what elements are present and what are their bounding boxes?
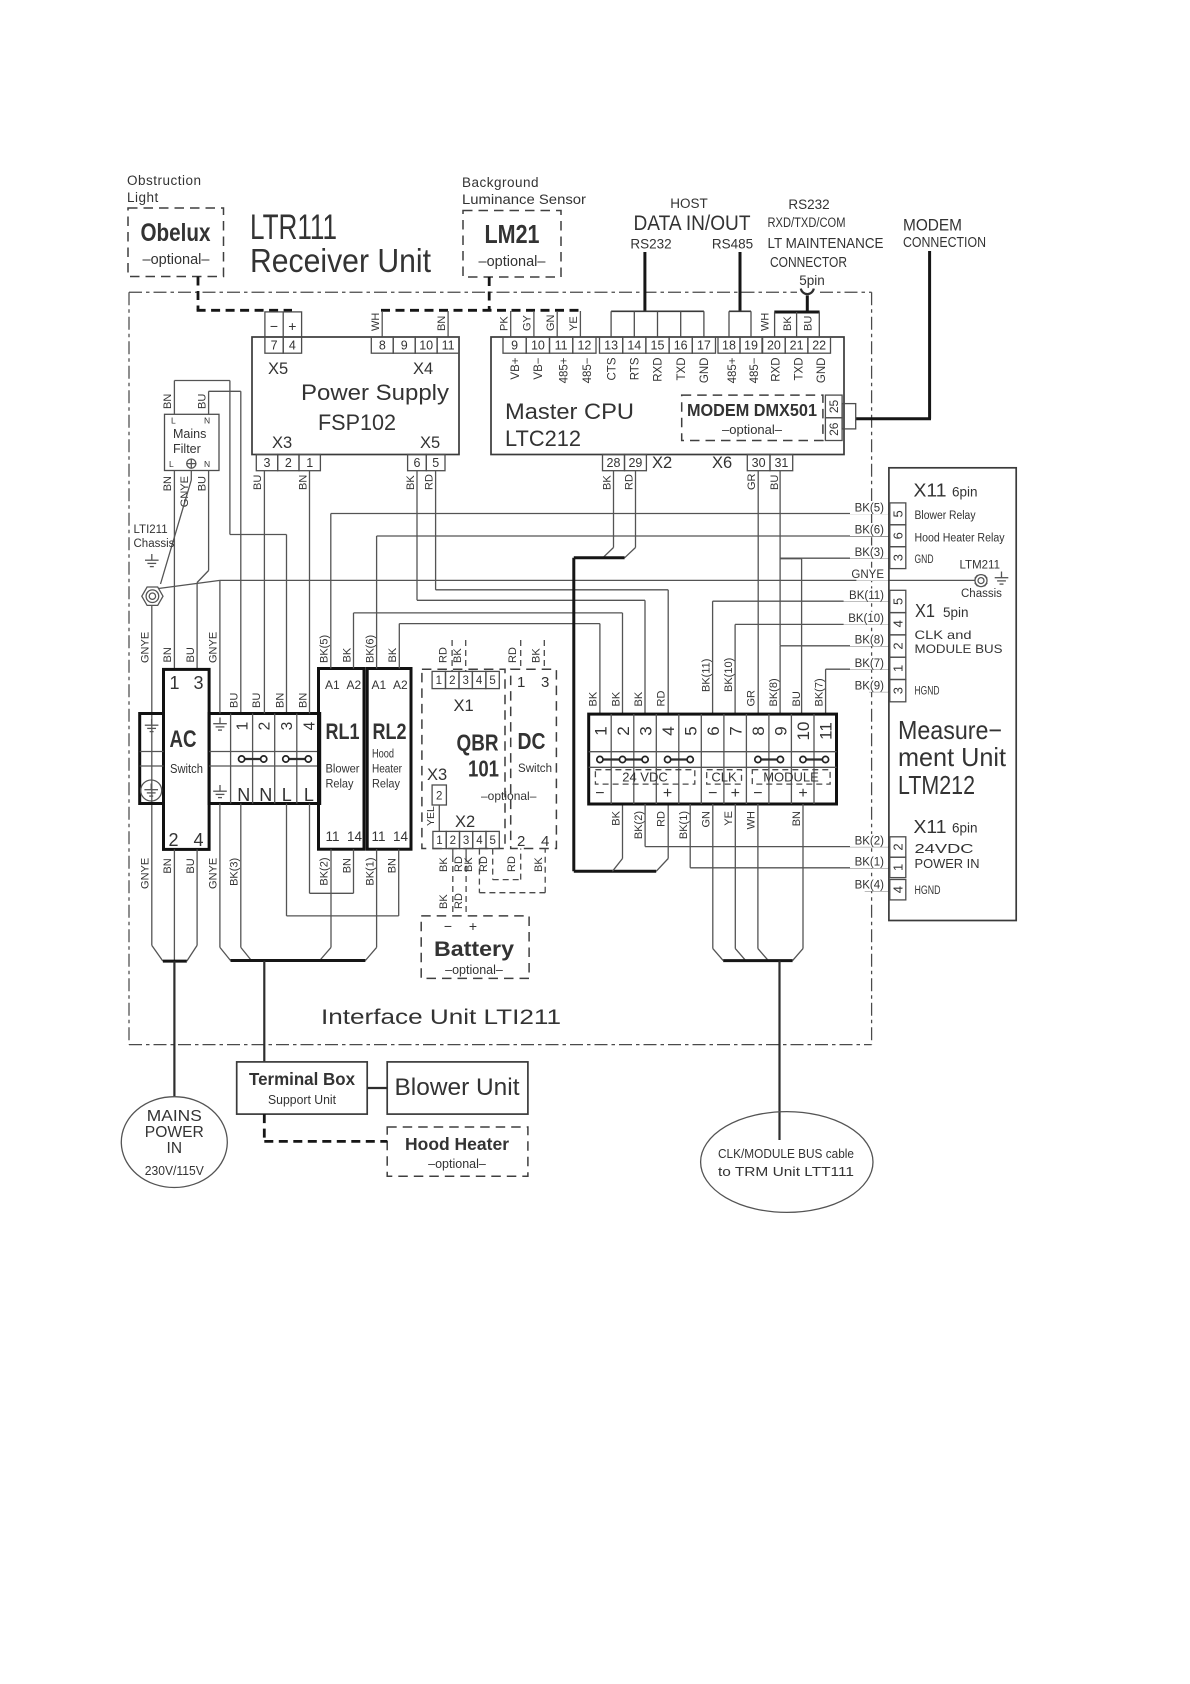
- chassis nut: [142, 587, 163, 605]
- svg-text:26: 26: [827, 422, 841, 436]
- svg-text:BU: BU: [803, 316, 815, 331]
- svg-text:Background: Background: [462, 175, 539, 190]
- wire label BK(2): [850, 834, 888, 847]
- svg-text:4: 4: [541, 833, 549, 850]
- measurement unit LTM212 box: [889, 468, 1016, 921]
- svg-text:AC: AC: [170, 726, 197, 753]
- svg-text:BU: BU: [229, 693, 241, 708]
- svg-text:BK: BK: [341, 647, 353, 662]
- svg-text:BK: BK: [438, 857, 450, 872]
- svg-text:X11: X11: [914, 817, 947, 837]
- svg-text:BK: BK: [438, 894, 450, 909]
- svg-text:19: 19: [744, 339, 758, 353]
- connector X5 -/+ cells: [265, 312, 302, 337]
- wire GN block cell6 down: [712, 804, 714, 949]
- svg-text:to TRM Unit LTT111: to TRM Unit LTT111: [718, 1165, 854, 1179]
- svg-text:1: 1: [891, 864, 906, 871]
- wire BK(8) LTM212 to block cell9: [780, 645, 889, 647]
- power supply FSP102 box: [252, 337, 459, 455]
- svg-text:1: 1: [436, 835, 442, 847]
- wire obelux dashed drop: [197, 277, 200, 311]
- svg-text:BN: BN: [274, 693, 286, 708]
- svg-text:BK(2): BK(2): [633, 811, 645, 839]
- svg-text:BN: BN: [162, 858, 174, 873]
- svg-text:2: 2: [517, 833, 525, 850]
- svg-text:YEL: YEL: [425, 806, 437, 826]
- svg-text:485+: 485+: [727, 357, 739, 383]
- svg-text:CLK/MODULE BUS cable: CLK/MODULE BUS cable: [718, 1147, 854, 1161]
- cable collar to mains: [152, 945, 163, 961]
- svg-text:Filter: Filter: [173, 442, 201, 456]
- svg-text:−: −: [708, 785, 717, 802]
- svg-text:11: 11: [326, 829, 340, 844]
- svg-text:2: 2: [450, 835, 456, 847]
- wire BK(11) block cell6 to LTM212: [713, 600, 889, 602]
- wire label BK(3): [850, 546, 888, 559]
- svg-text:RD: RD: [438, 647, 450, 663]
- wire BK(5) RL1-A1 to LTM212 pin5: [331, 513, 889, 515]
- terminal box support unit: [237, 1062, 368, 1114]
- connector X3 pins 3,2,1: [256, 455, 277, 471]
- svg-text:Mains: Mains: [173, 427, 206, 441]
- wire WH block cell8 down: [757, 804, 759, 949]
- svg-text:Hood: Hood: [372, 747, 394, 761]
- cable collar to TRM: [713, 949, 723, 961]
- svg-text:BN: BN: [162, 647, 174, 662]
- wire RD dashed stub into DC1: [520, 640, 522, 669]
- svg-text:Master CPU: Master CPU: [505, 399, 634, 424]
- connector pins 25,26: [825, 395, 842, 418]
- wire heavy 24VDC bus from CPU: [574, 556, 625, 559]
- connector X4 pins 8-11: [371, 337, 393, 353]
- wire GN stub to CPU pin11: [556, 311, 558, 337]
- svg-text:RL1: RL1: [326, 719, 360, 744]
- svg-text:LTC212: LTC212: [505, 426, 581, 451]
- svg-text:4: 4: [891, 620, 906, 627]
- svg-text:Switch: Switch: [518, 761, 552, 775]
- svg-text:1: 1: [592, 726, 611, 735]
- svg-text:HOST: HOST: [670, 196, 708, 211]
- wire BN strip cell3 + RL2-14: [286, 804, 288, 916]
- wire BU jog filter to strip cell1: [209, 390, 241, 392]
- wire GNYE bus to measurement unit: [220, 579, 975, 581]
- svg-text:X3: X3: [427, 766, 447, 784]
- svg-text:1: 1: [891, 665, 906, 672]
- svg-text:RXD/TXD/COM: RXD/TXD/COM: [768, 215, 846, 230]
- svg-text:5pin: 5pin: [943, 605, 969, 620]
- svg-text:11: 11: [442, 339, 455, 353]
- wire BU X3 pin3 to strip cell2: [263, 471, 265, 714]
- svg-text:LTM211: LTM211: [960, 560, 1000, 572]
- svg-text:Chassis: Chassis: [961, 588, 1002, 600]
- svg-text:BU: BU: [196, 394, 208, 409]
- svg-text:BK: BK: [610, 810, 622, 825]
- svg-text:IN: IN: [167, 1140, 183, 1157]
- svg-text:GND: GND: [816, 358, 828, 384]
- svg-text:BK(1): BK(1): [678, 811, 690, 839]
- svg-text:BK: BK: [463, 857, 475, 872]
- svg-text:3: 3: [541, 674, 549, 691]
- svg-text:BN: BN: [791, 811, 803, 826]
- svg-text:230V/115V: 230V/115V: [145, 1163, 204, 1178]
- wire BN filter top: [173, 381, 175, 415]
- svg-text:6pin: 6pin: [952, 485, 978, 500]
- svg-text:BU: BU: [185, 647, 197, 662]
- wire BU filter to AC pin3: [208, 471, 210, 571]
- wire YE block cell7 down: [734, 804, 736, 949]
- svg-text:POWER: POWER: [145, 1124, 204, 1141]
- svg-text:BK(5): BK(5): [855, 503, 885, 515]
- terminal block 24VDC/CLK/MODULE: [589, 714, 837, 804]
- svg-text:X11: X11: [914, 481, 947, 501]
- svg-text:YE: YE: [723, 811, 735, 826]
- svg-text:21: 21: [790, 339, 804, 353]
- svg-text:+: +: [731, 785, 740, 802]
- svg-text:Blower: Blower: [326, 762, 360, 776]
- svg-text:22: 22: [812, 339, 826, 353]
- svg-text:LTM212: LTM212: [898, 770, 975, 800]
- svg-text:ment Unit: ment Unit: [898, 742, 1007, 772]
- svg-text:BK(5): BK(5): [319, 635, 331, 663]
- svg-text:X1: X1: [915, 601, 935, 621]
- wire BK(6) RL2-A1 to LTM212 pin6: [377, 535, 889, 537]
- svg-text:RD: RD: [623, 474, 635, 490]
- svg-text:RD: RD: [453, 893, 465, 909]
- block jumper 4-5: [668, 758, 691, 760]
- svg-text:CLK: CLK: [711, 770, 737, 785]
- block jumper 1-2-3: [600, 758, 645, 760]
- svg-text:TXD: TXD: [793, 358, 805, 381]
- svg-text:+: +: [798, 785, 807, 802]
- svg-text:RD: RD: [507, 647, 519, 663]
- svg-text:Switch: Switch: [170, 761, 203, 776]
- svg-text:VB+: VB+: [510, 357, 522, 379]
- wire BU CPU pin31 down: [779, 471, 781, 646]
- svg-text:GNYE: GNYE: [851, 569, 884, 581]
- wire BK(2) block cell3 to LTM212: [644, 804, 646, 847]
- svg-text:A2: A2: [347, 678, 362, 692]
- svg-text:BN: BN: [436, 316, 448, 331]
- svg-text:Hood Heater: Hood Heater: [405, 1134, 509, 1154]
- svg-text:DATA IN/OUT: DATA IN/OUT: [634, 212, 751, 235]
- svg-text:11: 11: [372, 829, 386, 844]
- svg-text:–optional–: –optional–: [479, 254, 547, 270]
- svg-text:BK: BK: [452, 648, 464, 663]
- svg-text:4: 4: [194, 830, 204, 850]
- svg-text:17: 17: [697, 339, 711, 353]
- svg-text:3: 3: [194, 673, 204, 693]
- svg-text:LT MAINTENANCE: LT MAINTENANCE: [768, 236, 884, 252]
- svg-text:–optional–: –optional–: [722, 422, 783, 437]
- svg-text:10: 10: [531, 339, 545, 353]
- svg-text:3: 3: [637, 726, 656, 735]
- svg-text:WH: WH: [746, 811, 758, 829]
- svg-text:−: −: [270, 318, 278, 334]
- svg-text:HGND: HGND: [915, 686, 940, 698]
- wire PK stub to CPU pin9: [510, 311, 512, 337]
- svg-text:24 VDC: 24 VDC: [622, 770, 668, 785]
- svg-text:4: 4: [476, 835, 483, 847]
- block jumper 10-11: [803, 758, 826, 760]
- wire BK dashed stub into X1: [465, 640, 467, 671]
- ground symbol chassis: [145, 554, 159, 567]
- svg-text:25: 25: [827, 400, 841, 414]
- svg-text:Hood Heater Relay: Hood Heater Relay: [915, 533, 1005, 545]
- svg-text:LM21: LM21: [485, 219, 540, 249]
- svg-text:X2: X2: [455, 813, 475, 831]
- svg-text:3: 3: [463, 835, 469, 847]
- svg-text:16: 16: [674, 339, 688, 353]
- svg-text:BK(2): BK(2): [855, 835, 885, 847]
- wire BK RL2-A2 to block cell1: [399, 623, 600, 625]
- obstruction light Obelux (optional): [128, 208, 224, 277]
- wire RD X2 pin5 to DC2: [492, 849, 494, 880]
- wire BN stub to X4 pin11: [447, 311, 449, 337]
- wire GNYE branch to strip ground: [219, 580, 221, 713]
- svg-text:YE: YE: [568, 316, 580, 331]
- connector X5 bottom pins 6,5: [408, 455, 427, 471]
- svg-text:2: 2: [449, 675, 455, 687]
- svg-text:BK: BK: [531, 648, 543, 663]
- master CPU LTC212 box: [491, 337, 844, 455]
- svg-text:6: 6: [891, 532, 906, 539]
- strip ground symbols: [213, 718, 227, 731]
- wire BK(3) strip cell1 down: [240, 804, 242, 948]
- connector comb over CPU pins 13-17: [611, 310, 704, 312]
- svg-text:BK: BK: [588, 691, 600, 706]
- interface unit LTI211 dash-dot border: [129, 291, 797, 293]
- svg-text:BU: BU: [196, 476, 208, 491]
- svg-text:GR: GR: [746, 473, 758, 490]
- svg-text:5: 5: [489, 675, 495, 687]
- wire YEL X3 to X2 pin1: [438, 805, 440, 831]
- wire BK(3) LTM212 GND: [780, 557, 889, 559]
- svg-text:30: 30: [752, 456, 766, 470]
- wire label BK(8): [850, 633, 888, 646]
- svg-text:BN: BN: [341, 858, 353, 873]
- svg-text:RD: RD: [506, 856, 518, 872]
- svg-text:1: 1: [306, 456, 313, 470]
- svg-text:RD: RD: [655, 811, 667, 827]
- svg-text:X2: X2: [652, 454, 672, 472]
- svg-text:Support Unit: Support Unit: [268, 1092, 336, 1107]
- svg-text:GN: GN: [701, 811, 713, 828]
- svg-text:MODEM: MODEM: [903, 216, 962, 235]
- connector X3 pin 2: [432, 785, 446, 805]
- wire RS232 host drop: [643, 252, 646, 311]
- svg-text:GND: GND: [699, 358, 711, 384]
- svg-text:BU: BU: [791, 691, 803, 706]
- wire GY stub to CPU pin10: [533, 311, 535, 337]
- wire BK dashed stub into DC3: [543, 640, 545, 669]
- svg-text:N: N: [204, 416, 210, 426]
- wire BK block cell2 bottom to bus: [622, 804, 624, 859]
- svg-text:BU: BU: [769, 475, 781, 490]
- svg-text:BK(8): BK(8): [768, 678, 780, 706]
- svg-text:RD: RD: [423, 474, 435, 490]
- svg-text:10: 10: [794, 722, 813, 741]
- svg-text:Terminal Box: Terminal Box: [249, 1069, 355, 1089]
- background luminance sensor LM21 (optional): [463, 211, 561, 278]
- svg-text:GNYE: GNYE: [208, 858, 220, 889]
- wire RD PSU X5-5 to block cell4: [435, 471, 437, 590]
- wire TRM cable: [778, 961, 780, 1140]
- svg-text:11: 11: [555, 339, 568, 353]
- svg-text:3: 3: [264, 456, 271, 470]
- svg-text:8: 8: [749, 726, 768, 735]
- wire BK(1) RL2-11 into cable: [376, 849, 378, 947]
- svg-text:5: 5: [432, 456, 439, 470]
- strip jumper link 1-2: [242, 758, 264, 760]
- wire label BK(7): [850, 657, 888, 670]
- svg-text:A2: A2: [393, 678, 408, 692]
- wire MODEM connection heavy line: [928, 251, 931, 419]
- svg-text:CLK and: CLK and: [915, 628, 972, 642]
- svg-text:5pin: 5pin: [799, 273, 825, 288]
- svg-text:3: 3: [279, 722, 296, 731]
- relay RL2 box: [367, 669, 411, 850]
- wire label BK(11): [844, 589, 888, 602]
- svg-text:BK(7): BK(7): [855, 658, 885, 670]
- svg-text:BK(7): BK(7): [813, 678, 825, 706]
- svg-text:L: L: [282, 785, 292, 805]
- connector X6 pins 30,31: [747, 455, 770, 471]
- wire terminal box cable: [263, 961, 265, 1062]
- svg-text:BK: BK: [387, 647, 399, 662]
- svg-text:A1: A1: [372, 678, 387, 692]
- block jumper 8-9: [758, 758, 781, 760]
- svg-text:1: 1: [170, 673, 180, 693]
- svg-text:Luminance Sensor: Luminance Sensor: [462, 192, 587, 207]
- label MODULE: [752, 770, 830, 784]
- hood heater (optional): [387, 1127, 528, 1176]
- mains filter box: [165, 414, 220, 470]
- cable collar to terminal box: [220, 947, 231, 960]
- svg-text:BK(4): BK(4): [855, 880, 885, 892]
- DC switch dashed box (optional): [511, 669, 557, 848]
- svg-text:X4: X4: [413, 360, 433, 378]
- svg-text:RS485: RS485: [712, 237, 753, 252]
- connector X1 pins 5,4,2,1,3: [890, 590, 906, 612]
- svg-text:CONNECTOR: CONNECTOR: [770, 255, 847, 271]
- wire GNYE filter to chassis nut: [190, 471, 192, 481]
- QBR101 dashed box (optional): [422, 669, 505, 848]
- wire BK PSU X5-6 to block cell3: [416, 471, 418, 601]
- svg-text:101: 101: [468, 756, 499, 782]
- wire BK X2 pin4 to DC4: [478, 849, 480, 893]
- svg-text:RD: RD: [655, 691, 667, 707]
- svg-text:Obelux: Obelux: [141, 219, 211, 247]
- wire RS485 drop: [739, 252, 742, 311]
- svg-text:4: 4: [301, 721, 318, 730]
- svg-text:RS232: RS232: [788, 197, 829, 212]
- wire BN filter to AC pin1: [173, 471, 175, 670]
- wire BK(2) RL1-11 into cable: [330, 849, 332, 947]
- svg-text:BK(3): BK(3): [855, 547, 885, 559]
- svg-text:−: −: [753, 785, 762, 802]
- svg-text:BU: BU: [185, 858, 197, 873]
- wire BN X3 pin1 to strip cell4: [309, 471, 311, 714]
- wire terminal box to blower: [367, 1087, 387, 1089]
- svg-text:2: 2: [436, 791, 442, 803]
- svg-text:2: 2: [891, 843, 906, 850]
- svg-text:RL2: RL2: [373, 719, 407, 744]
- svg-text:BN: BN: [297, 693, 309, 708]
- svg-text:BK(10): BK(10): [723, 658, 735, 692]
- svg-text:9: 9: [511, 339, 518, 353]
- svg-text:WH: WH: [760, 313, 772, 331]
- svg-text:GND: GND: [915, 554, 934, 566]
- wire label BK(10): [844, 612, 888, 625]
- connector X2 pins 1-5: [433, 831, 446, 848]
- battery box (optional): [421, 916, 529, 979]
- svg-text:7: 7: [271, 339, 278, 353]
- svg-text:+: +: [663, 785, 672, 802]
- 5pin connector cup symbol: [801, 289, 814, 294]
- svg-text:BU: BU: [252, 475, 264, 490]
- svg-text:BK: BK: [601, 475, 613, 490]
- svg-text:RXD: RXD: [771, 358, 783, 382]
- svg-text:N: N: [237, 785, 250, 805]
- wire BK(1) block cell5 to LTM212: [689, 804, 691, 868]
- svg-text:Measure−: Measure−: [898, 715, 1002, 745]
- wire BK CPU pin28 merge: [613, 471, 615, 548]
- svg-text:5: 5: [891, 510, 906, 517]
- svg-text:X3: X3: [272, 434, 292, 452]
- svg-text:X5: X5: [268, 360, 288, 378]
- svg-text:MAINS: MAINS: [147, 1108, 202, 1125]
- svg-text:GNYE: GNYE: [140, 858, 152, 889]
- svg-text:2: 2: [614, 726, 633, 735]
- svg-text:4: 4: [476, 675, 483, 687]
- connector X11 pins 2,1,4: [890, 837, 906, 857]
- modem DMX501 (optional): [682, 395, 823, 440]
- svg-text:485−: 485−: [582, 357, 594, 383]
- wire BN jog filter to strip cell3: [174, 380, 230, 382]
- wire 5pin drop: [806, 295, 809, 311]
- svg-text:TXD: TXD: [676, 358, 688, 381]
- svg-text:BN: BN: [387, 858, 399, 873]
- svg-text:+: +: [288, 318, 296, 334]
- svg-text:RS232: RS232: [630, 237, 671, 252]
- svg-text:BK(8): BK(8): [855, 635, 885, 647]
- svg-text:BN: BN: [162, 476, 174, 491]
- svg-text:BU: BU: [251, 693, 263, 708]
- connector bracket over CPU pins 18-19: [729, 310, 751, 312]
- svg-text:CONNECTION: CONNECTION: [903, 235, 986, 251]
- wire BU AC pin4 down: [196, 849, 198, 945]
- svg-text:Relay: Relay: [372, 777, 401, 791]
- connector X2 pins 28,29: [603, 455, 625, 471]
- svg-text:8: 8: [379, 339, 386, 353]
- svg-text:485−: 485−: [749, 357, 761, 383]
- svg-text:X5: X5: [420, 434, 440, 452]
- svg-text:12: 12: [577, 339, 591, 353]
- svg-text:6pin: 6pin: [952, 821, 978, 836]
- wire LM21 dashed drop: [488, 277, 491, 310]
- svg-text:4: 4: [891, 886, 906, 893]
- svg-text:Interface Unit LTI211: Interface Unit LTI211: [321, 1006, 561, 1029]
- svg-text:15: 15: [651, 339, 665, 353]
- wire BK X2 pin2 to battery: [452, 849, 454, 856]
- svg-text:BK(3): BK(3): [229, 858, 241, 886]
- svg-text:7: 7: [727, 726, 746, 735]
- relay RL1 box: [319, 669, 365, 850]
- wire RD CPU pin29 merge: [635, 471, 637, 548]
- svg-text:BK(11): BK(11): [849, 590, 884, 602]
- wire YE stub to CPU pin12: [579, 311, 581, 337]
- svg-text:31: 31: [774, 456, 788, 470]
